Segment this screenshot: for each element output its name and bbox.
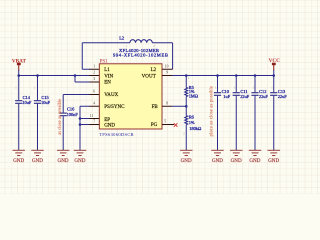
ground symbol under C16 xyxy=(57,150,69,164)
pin 11 EP xyxy=(90,114,111,123)
wire EP tie xyxy=(80,118,90,120)
svg-text:GND: GND xyxy=(74,158,85,164)
wire PS/SYNC to ground rail xyxy=(80,106,90,150)
svg-text:22uF: 22uF xyxy=(240,94,250,99)
svg-text:R6: R6 xyxy=(189,115,195,120)
pin 10 L2 xyxy=(151,64,173,73)
svg-text:3: 3 xyxy=(93,77,95,81)
pin 6 VAUX xyxy=(90,90,119,98)
svg-text:22uF: 22uF xyxy=(278,94,288,99)
pin 4 PS/SYNC xyxy=(90,101,126,110)
svg-text:GND: GND xyxy=(268,158,279,164)
svg-text:9: 9 xyxy=(166,71,168,75)
svg-text:EN: EN xyxy=(104,80,111,85)
svg-text:TPS63060DSCR: TPS63060DSCR xyxy=(99,132,134,137)
node junction EN tap xyxy=(74,74,77,77)
IC PS1 TPS63060DSCR body xyxy=(99,60,162,138)
ground symbol under C12 xyxy=(249,150,261,164)
wire VBAT rail to VIN xyxy=(19,75,90,77)
node junction R5 top xyxy=(185,74,188,77)
node junction C12 xyxy=(254,74,257,77)
svg-text:1uF: 1uF xyxy=(223,94,230,99)
svg-text:GND: GND xyxy=(32,158,43,164)
resistor R6 xyxy=(183,106,202,150)
svg-text:10: 10 xyxy=(165,64,169,68)
svg-text:GND: GND xyxy=(231,158,242,164)
svg-text:1MΩ: 1MΩ xyxy=(189,93,199,98)
capacitor C15 xyxy=(34,76,51,151)
pin 5 PG xyxy=(151,120,174,128)
svg-text:GND: GND xyxy=(212,158,223,164)
node junction GND pin xyxy=(79,123,82,126)
svg-text:1%: 1% xyxy=(189,120,195,125)
wire inductor loop top right xyxy=(152,42,172,44)
svg-text:8: 8 xyxy=(166,101,168,105)
svg-text:4: 4 xyxy=(93,101,95,105)
inductor L2 xyxy=(113,35,168,57)
wire inductor loop left vertical xyxy=(81,43,83,69)
svg-text:PS1: PS1 xyxy=(100,60,109,65)
svg-text:VAUX: VAUX xyxy=(104,93,118,98)
svg-text:L2: L2 xyxy=(151,68,157,73)
svg-text:PG: PG xyxy=(151,123,158,128)
pin 8 FB xyxy=(152,101,172,109)
svg-text:180kΩ: 180kΩ xyxy=(189,126,202,131)
wire FB link xyxy=(172,105,186,107)
ground symbol under C13 xyxy=(268,150,280,164)
wire GND pin tie xyxy=(80,124,90,126)
ground symbol under C10 xyxy=(211,150,223,164)
svg-text:GND: GND xyxy=(58,158,69,164)
wire VBAT lead xyxy=(18,70,20,76)
power port VBAT xyxy=(12,58,27,70)
node junction VBAT/C14 xyxy=(17,74,20,77)
capacitor C16 xyxy=(58,107,78,150)
capacitor C13 xyxy=(270,76,287,151)
node junction C11 xyxy=(235,74,238,77)
pin 3 EN xyxy=(90,77,112,85)
wire EN jog vertical xyxy=(74,76,76,83)
wire VOUT bus xyxy=(172,75,274,77)
wire inductor loop top left xyxy=(82,42,130,44)
resistor R5 xyxy=(185,76,199,107)
capacitor C14 xyxy=(15,76,32,151)
svg-text:L1: L1 xyxy=(104,68,110,73)
power port VCC xyxy=(269,58,280,75)
svg-text:FB: FB xyxy=(152,105,159,110)
svg-text:7: 7 xyxy=(93,120,95,124)
svg-text:10uF: 10uF xyxy=(41,100,51,105)
svg-text:VOUT: VOUT xyxy=(142,74,156,79)
wire L1 pin link xyxy=(82,68,90,70)
svg-text:22uF: 22uF xyxy=(259,94,269,99)
svg-text:6: 6 xyxy=(93,90,95,94)
svg-text:GND: GND xyxy=(104,123,115,128)
svg-text:100nF: 100nF xyxy=(67,112,79,117)
svg-text:GND: GND xyxy=(13,158,24,164)
ground symbol under PS/SYNC rail xyxy=(74,150,86,164)
pin 1 L1 xyxy=(90,64,111,73)
svg-text:10uF: 10uF xyxy=(22,100,32,105)
wire EN jog horizontal xyxy=(75,81,90,83)
svg-text:GND: GND xyxy=(249,158,260,164)
ground symbol under R6 xyxy=(180,150,192,164)
svg-text:place as close as possible: place as close as possible xyxy=(209,85,214,136)
pin 2 VIN xyxy=(90,71,114,80)
svg-text:994-XFL4020-102MEB: 994-XFL4020-102MEB xyxy=(113,53,168,58)
node junction FB xyxy=(185,105,188,108)
svg-text:PS/SYNC: PS/SYNC xyxy=(104,105,125,110)
node junction EP xyxy=(79,117,82,120)
capacitor C11 xyxy=(233,76,250,151)
svg-text:GND: GND xyxy=(181,158,192,164)
node junction C13/VCC xyxy=(272,74,275,77)
capacitor C12 xyxy=(251,76,268,151)
node junction C15/rail xyxy=(36,74,39,77)
no-ERC cross on PG xyxy=(174,123,178,127)
pin 7 GND xyxy=(90,120,116,129)
wire inductor loop right vertical xyxy=(172,43,174,69)
ground symbol under C14 xyxy=(13,150,25,164)
wire VAUX to C16 xyxy=(63,95,89,113)
pin 9 VOUT xyxy=(142,71,172,80)
svg-text:11: 11 xyxy=(90,114,94,118)
svg-text:2: 2 xyxy=(93,71,95,75)
svg-text:C16: C16 xyxy=(67,107,75,112)
svg-text:5: 5 xyxy=(164,120,166,124)
svg-text:1: 1 xyxy=(93,64,95,68)
node junction C10 xyxy=(216,74,219,77)
svg-text:as close as possible: as close as possible xyxy=(58,99,63,135)
ground symbol under C15 xyxy=(31,150,43,164)
svg-text:L2: L2 xyxy=(119,35,124,40)
svg-text:VIN: VIN xyxy=(104,74,113,79)
capacitor C10 xyxy=(214,76,231,151)
ground symbol under C11 xyxy=(230,150,242,164)
